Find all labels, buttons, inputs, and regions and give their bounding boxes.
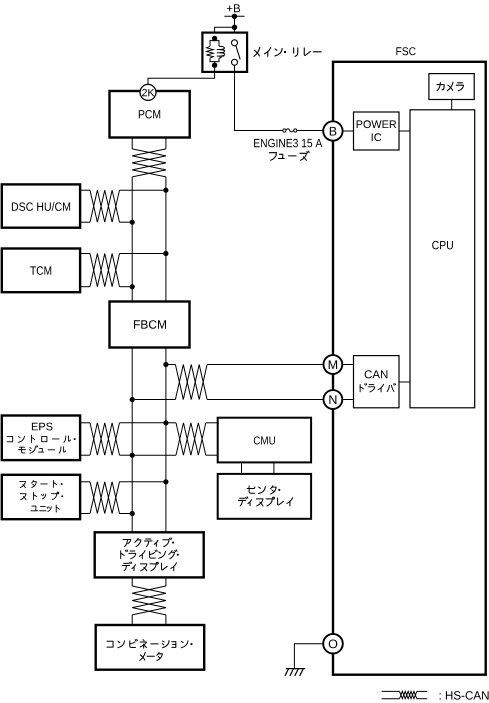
junction START lower tap [130,511,135,516]
junction TCM upper tap [163,251,168,256]
wire CAN bus left vertical [131,177,133,532]
junction EPS upper tap [163,420,168,425]
box FSC [333,47,486,675]
terminal B [323,121,342,140]
relay coil with resistor [207,36,225,68]
box center display (センタ・ディスプレイ) [218,474,311,519]
twisted pair bus to CMU [132,423,218,455]
wire N to CAN driver [342,399,353,401]
junction EPS lower tap [130,453,135,458]
legend twisted pair symbol [382,691,428,698]
label : HS-CAN [440,691,489,700]
box EPS control module [2,416,80,461]
wire +B to relay [215,16,238,42]
junction START upper tap [163,479,168,484]
wire camera to CPU [451,100,453,110]
box PCM [110,91,190,138]
terminal M [324,355,343,374]
box CAN driver (CANドライバ) [354,356,400,408]
wire CAN driver to CPU [399,381,410,383]
wire POWER IC to CPU [399,130,410,132]
wire O to ground [294,644,323,669]
box DSC HU/CM [2,184,80,227]
twisted pair bus to FSC terminals M and N [132,365,323,400]
wire CMU to center display [242,462,274,474]
wire B to POWER IC [343,130,354,132]
box CPU [410,110,475,408]
box active driving display [95,532,204,577]
relay: main relay box [202,33,247,72]
twisted pair EPS to bus [81,423,166,455]
junction DSC HU/CM lower tap [130,220,135,225]
terminal N [324,390,343,409]
twisted pair PCM to CAN bus [132,138,166,177]
twisted pair START to bus [81,482,166,514]
twisted pair DSC HU/CM to bus [81,190,166,222]
relay switch contacts [232,40,241,66]
wire CAN bus right vertical [165,177,167,532]
ground symbol [285,669,305,676]
box CMU [218,418,311,463]
wire fuse to terminal B [297,130,323,132]
node +B supply terminal [224,4,244,19]
twisted pair active display to combination meter [132,577,166,625]
junction TCM lower tap [130,284,135,289]
twisted pair TCM to bus [81,254,166,287]
box FBCM [110,302,190,348]
junction M tap [163,362,168,367]
wire relay coil to PCM pin 2K [148,65,215,84]
box start stop unit [2,475,80,519]
wire M to CAN driver [342,364,353,366]
box POWER IC [354,112,400,150]
junction DSC HU/CM upper tap [163,188,168,193]
label: ENGINE3 15 A fuse [254,139,322,161]
box TCM [2,249,80,293]
junction N tap [130,397,135,402]
wire relay switch to fuse [235,65,283,130]
terminal O [323,634,343,654]
label: main relay (メイン・リレー) [254,47,321,56]
box combination meter [96,625,205,670]
node 2K (PCM pin) [140,84,156,100]
box camera (カメラ) [429,74,474,100]
fuse ENGINE3 15 A [283,129,297,132]
